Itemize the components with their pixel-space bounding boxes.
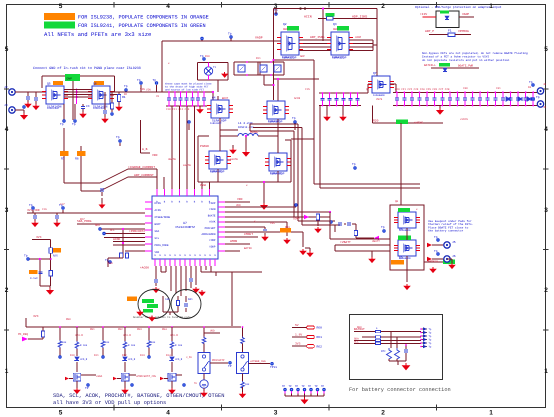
svg-text:4: 4: [5, 126, 9, 133]
svg-text:VBATT: VBATT: [372, 240, 380, 243]
svg-text:R53: R53: [137, 328, 142, 331]
svg-text:C4: C4: [86, 105, 90, 108]
svg-text:SDA, SCL, ACOK, PROCHOT#, BATG: SDA, SCL, ACOK, PROCHOT#, BATGONE, OTGEN…: [53, 393, 224, 399]
svg-text:R1: R1: [122, 96, 126, 99]
svg-text:SDA: SDA: [155, 230, 160, 233]
svg-text:BATID: BATID: [244, 247, 252, 250]
svg-text:SiSA08DN: SiSA08DN: [399, 229, 411, 232]
svg-text:Tp: Tp: [200, 55, 204, 58]
svg-text:TP: TP: [282, 385, 286, 388]
svg-text:TP: TP: [228, 365, 232, 368]
svg-text:R51: R51: [90, 328, 95, 331]
svg-text:PROCHOT: PROCHOT: [205, 227, 216, 230]
svg-text:VDD: VDD: [210, 330, 215, 333]
svg-text:R25: R25: [53, 255, 58, 258]
svg-text:Tp: Tp: [434, 236, 438, 239]
svg-text:TP: TP: [295, 385, 299, 388]
svg-text:+19V: +19V: [420, 13, 427, 16]
svg-text:J_PH: J_PH: [186, 356, 192, 359]
svg-text:D11: D11: [94, 354, 99, 357]
svg-text:Tp: Tp: [72, 123, 76, 126]
svg-text:AMON: AMON: [230, 240, 237, 243]
svg-text:4: 4: [166, 410, 170, 417]
svg-text:+ACOK: +ACOK: [140, 267, 149, 270]
svg-text:R20: R20: [373, 120, 379, 123]
svg-text:the battery connector: the battery connector: [428, 229, 464, 233]
svg-text:AMON/BMON: AMON/BMON: [201, 233, 215, 236]
svg-text:PA5013.222: PA5013.222: [238, 126, 254, 129]
svg-text:SiSA14DN: SiSA14DN: [93, 107, 105, 110]
svg-text:Tp: Tp: [137, 79, 141, 82]
svg-text:C17: C17: [60, 203, 65, 206]
svg-text:ADP_P: ADP_P: [425, 30, 434, 33]
svg-text:3V3-R: 3V3-R: [75, 334, 83, 337]
svg-text:TPxx: TPxx: [270, 366, 277, 369]
svg-text:CSON: CSON: [209, 208, 216, 211]
svg-text:TP: TP: [315, 385, 319, 388]
svg-text:SiSA08DN: SiSA08DN: [399, 257, 411, 260]
svg-text:C10 C11 C12 C13: C10 C11 C12 C13: [166, 108, 190, 111]
svg-text:Q3: Q3: [333, 23, 337, 26]
svg-text:ISL9238HRTZ: ISL9238HRTZ: [175, 226, 195, 229]
svg-text:LED_R: LED_R: [175, 358, 183, 361]
svg-text:Q6: Q6: [93, 83, 97, 86]
svg-text:D12: D12: [122, 354, 127, 357]
svg-text:10k: 10k: [151, 341, 156, 344]
svg-text:C15: C15: [305, 88, 310, 91]
svg-text:all have 3V3 or VDD pull up op: all have 3V3 or VDD pull up options: [53, 400, 166, 406]
svg-text:Tp: Tp: [434, 250, 438, 253]
svg-text:FOR ISL9238, POPULATE COMPONEN: FOR ISL9238, POPULATE COMPONENTS IN ORAN…: [78, 15, 209, 21]
svg-text:R60: R60: [317, 327, 323, 330]
svg-text:3: 3: [544, 207, 548, 214]
svg-text:Tp: Tp: [116, 136, 120, 139]
svg-text:+OTGEN_CHG: +OTGEN_CHG: [250, 360, 266, 363]
svg-text:J2: J2: [4, 86, 8, 89]
svg-text:Instead of a FET a 0ohm resist: Instead of a FET a 0ohm resistor to VSYS: [422, 54, 489, 58]
svg-text:U7: U7: [183, 221, 187, 225]
svg-text:Tp: Tp: [60, 123, 64, 126]
svg-text:C16: C16: [42, 208, 47, 211]
svg-text:BOOT: BOOT: [222, 97, 229, 100]
svg-text:T1: T1: [213, 66, 217, 69]
svg-text:R7: R7: [61, 158, 65, 161]
svg-text:Tp: Tp: [29, 204, 33, 207]
svg-text:+VSYS: +VSYS: [460, 118, 468, 121]
svg-text:VDD: VDD: [152, 154, 158, 157]
svg-text:Q8: Q8: [395, 200, 399, 203]
svg-text:VSYS: VSYS: [376, 98, 383, 101]
svg-text:Optional - ESD/Surge protectio: Optional - ESD/Surge protection on adapt…: [415, 5, 502, 9]
svg-text:SDA: SDA: [95, 224, 100, 227]
svg-text:5: 5: [544, 46, 548, 53]
svg-text:ADP_CURRENT: ADP_CURRENT: [134, 174, 154, 177]
svg-text:For battery connector connecti: For battery connector connection: [349, 387, 451, 393]
svg-text:Snubber Cboot options to tune: Snubber Cboot options to tune SW node: [133, 316, 191, 319]
svg-text:COMP: COMP: [209, 239, 216, 242]
svg-text:Tp: Tp: [381, 226, 385, 229]
svg-text:ACIN: ACIN: [155, 209, 162, 212]
svg-text:1: 1: [5, 368, 9, 375]
svg-text:Q5: Q5: [47, 83, 51, 86]
svg-text:R41: R41: [188, 298, 193, 301]
svg-text:SiRA10DP: SiRA10DP: [210, 122, 222, 125]
svg-text:SCL: SCL: [354, 340, 359, 343]
svg-text:do not populate resistors and: do not populate resistors and put in eit…: [422, 58, 510, 62]
svg-text:Tp: Tp: [352, 163, 356, 166]
svg-text:J3: J3: [4, 104, 8, 107]
svg-text:C40: C40: [165, 298, 170, 301]
svg-text:SiRA12DP: SiRA12DP: [282, 56, 294, 59]
svg-text:VDD: VDD: [236, 204, 241, 207]
svg-text:Tp: Tp: [292, 117, 296, 120]
svg-text:R62: R62: [317, 345, 323, 348]
svg-text:J6: J6: [452, 255, 456, 258]
svg-text:VIN: VIN: [140, 88, 145, 91]
svg-text:J5: J5: [452, 241, 456, 244]
svg-text:R54: R54: [162, 328, 167, 331]
svg-text:VPPROG: VPPROG: [458, 30, 469, 33]
svg-text:R2: R2: [124, 93, 128, 96]
svg-text:4: 4: [544, 126, 548, 133]
svg-text:Q2: Q2: [283, 23, 287, 26]
svg-text:3V3: 3V3: [33, 315, 39, 318]
svg-text:UGATE: UGATE: [168, 158, 176, 161]
svg-text:A_B: A_B: [142, 148, 148, 151]
svg-text:VADP: VADP: [462, 13, 469, 16]
svg-text:ADP_ISNS: ADP_ISNS: [310, 36, 325, 39]
svg-text:3V3: 3V3: [36, 236, 42, 239]
svg-text:5: 5: [59, 410, 63, 417]
svg-text:R60: R60: [357, 326, 362, 329]
svg-text:VDD: VDD: [237, 198, 243, 201]
svg-text:VADP: VADP: [355, 36, 362, 39]
svg-text:DNP: DNP: [283, 28, 288, 31]
svg-text:2: 2: [381, 410, 385, 417]
svg-text:10k: 10k: [245, 383, 250, 386]
svg-text:R33: R33: [285, 226, 290, 229]
svg-text:3V3-R: 3V3-R: [170, 334, 178, 337]
svg-text:BATKILL: BATKILL: [424, 64, 436, 67]
svg-text:PHASE: PHASE: [200, 145, 209, 148]
svg-text:3V3: 3V3: [295, 343, 301, 346]
svg-text:BATKILL: BATKILL: [428, 260, 439, 263]
svg-text:LGATE: LGATE: [183, 164, 191, 167]
svg-text:SiRA18DP: SiRA18DP: [210, 170, 222, 173]
svg-text:+PROCHOT#: +PROCHOT#: [129, 230, 145, 233]
svg-text:R10: R10: [205, 55, 210, 58]
svg-text:3: 3: [5, 207, 9, 214]
svg-text:J9: J9: [543, 106, 547, 109]
svg-text:TP: TP: [321, 385, 325, 388]
svg-text:C20 C21 C22 C23 C24 C25 C26 C2: C20 C21 C22 C23 C24 C25 C26 C27 C28: [395, 88, 450, 91]
svg-text:TP: TP: [302, 385, 306, 388]
svg-text:Tp: Tp: [228, 33, 232, 36]
svg-text:PROCHOT#: PROCHOT#: [212, 359, 225, 362]
svg-text:D14: D14: [166, 354, 171, 357]
svg-text:Q4: Q4: [212, 97, 216, 100]
svg-text:Tp: Tp: [529, 81, 533, 84]
svg-text:+CHARGE_CURRENT: +CHARGE_CURRENT: [128, 166, 155, 169]
svg-text:SiRA10DP: SiRA10DP: [268, 120, 280, 123]
svg-text:10k: 10k: [62, 341, 67, 344]
svg-text:BGATE_PWR: BGATE_PWR: [458, 65, 473, 68]
svg-text:0.1uF: 0.1uF: [30, 277, 38, 280]
svg-text:Tp: Tp: [24, 255, 28, 258]
svg-text:Non-bypass FETs are not popula: Non-bypass FETs are not populated, do no…: [422, 51, 528, 55]
svg-text:F1: F1: [448, 30, 452, 33]
svg-text:C30: C30: [463, 87, 468, 90]
svg-text:R50: R50: [66, 318, 71, 321]
svg-text:+SDA: +SDA: [96, 375, 103, 378]
svg-text:PHASE: PHASE: [250, 131, 258, 134]
svg-text:4: 4: [166, 3, 170, 10]
svg-text:D10: D10: [70, 354, 75, 357]
svg-text:2: 2: [5, 287, 9, 294]
svg-text:2: 2: [381, 3, 385, 10]
svg-text:LED_R: LED_R: [128, 358, 136, 361]
svg-text:BGATE: BGATE: [208, 214, 216, 217]
svg-text:COMP: COMP: [293, 218, 300, 221]
svg-text:SiRA18DP: SiRA18DP: [270, 172, 282, 175]
svg-text:2: 2: [544, 287, 548, 294]
svg-text:R27: R27: [80, 218, 85, 221]
svg-text:All NFETs and PFETs are 3x3 si: All NFETs and PFETs are 3x3 size: [44, 31, 151, 38]
svg-text:1.8V: 1.8V: [295, 334, 302, 337]
svg-text:Q7: Q7: [366, 88, 370, 91]
svg-text:DNP: DNP: [67, 77, 73, 80]
svg-text:ADP: ADP: [300, 55, 305, 58]
svg-text:OTGEN/MODE: OTGEN/MODE: [155, 216, 171, 219]
svg-text:CMOUT: CMOUT: [244, 233, 253, 236]
svg-text:Tp: Tp: [153, 79, 157, 82]
svg-text:3V3-R: 3V3-R: [123, 334, 131, 337]
svg-text:PROG_MODE: PROG_MODE: [155, 244, 169, 247]
svg-text:D13: D13: [140, 354, 145, 357]
svg-text:+VBATT: +VBATT: [340, 241, 351, 244]
svg-text:C35: C35: [270, 222, 275, 225]
svg-text:5: 5: [5, 46, 9, 53]
svg-text:SCL: SCL: [155, 237, 160, 240]
svg-text:+PROCHOT#_CML: +PROCHOT#_CML: [136, 375, 157, 378]
svg-text:VDDP: VDDP: [209, 245, 216, 248]
svg-text:Q7: Q7: [373, 72, 377, 75]
svg-text:TP: TP: [308, 385, 312, 388]
svg-text:PGND: PGND: [200, 184, 207, 187]
svg-text:C9: C9: [156, 95, 160, 98]
svg-text:+VSYS: +VSYS: [414, 122, 423, 125]
svg-text:and source of low side FET: and source of low side FET: [165, 88, 205, 91]
svg-text:CSOP: CSOP: [209, 202, 216, 205]
svg-text:3: 3: [274, 410, 278, 417]
svg-text:10k: 10k: [105, 341, 110, 344]
svg-text:R52: R52: [118, 328, 123, 331]
svg-text:ACOK: ACOK: [113, 238, 120, 241]
svg-text:1: 1: [544, 368, 548, 375]
svg-text:VADP: VADP: [255, 36, 263, 40]
svg-text:DNP: DNP: [333, 28, 338, 31]
svg-text:SiRA12DP: SiRA12DP: [332, 56, 344, 59]
svg-text:LGATE: LGATE: [230, 158, 238, 161]
svg-text:TP: TP: [289, 385, 293, 388]
svg-text:PD_REQ: PD_REQ: [18, 333, 28, 336]
svg-text:Connect GND of In-rush ckt to: Connect GND of In-rush ckt to PGND plane…: [33, 66, 141, 71]
svg-text:Tp: Tp: [124, 85, 128, 88]
svg-text:R 10k: R 10k: [80, 344, 88, 347]
svg-text:R61: R61: [317, 336, 323, 339]
svg-text:BOOT: BOOT: [155, 223, 162, 226]
svg-text:LED_R: LED_R: [80, 358, 88, 361]
svg-text:C31: C31: [496, 87, 501, 90]
svg-text:FOR ISL9241, POPULATE COMPONEN: FOR ISL9241, POPULATE COMPONENTS IN GREE…: [78, 23, 206, 29]
svg-text:ADP_ISNS: ADP_ISNS: [352, 14, 367, 18]
svg-text:VIN: VIN: [146, 89, 151, 92]
svg-text:J8: J8: [543, 83, 547, 86]
svg-text:5V: 5V: [295, 324, 299, 327]
svg-text:NTC: NTC: [381, 350, 386, 353]
svg-text:SiSA14DN: SiSA14DN: [47, 107, 59, 110]
svg-text:R 10k: R 10k: [128, 344, 136, 347]
svg-text:TP: TP: [85, 387, 89, 390]
svg-text:SiSA08DN: SiSA08DN: [373, 94, 385, 97]
svg-text:1: 1: [489, 410, 493, 417]
svg-text:D3: D3: [528, 86, 532, 89]
svg-text:R 10k: R 10k: [175, 344, 183, 347]
svg-text:ACIN: ACIN: [294, 97, 301, 100]
svg-text:Tp: Tp: [536, 96, 540, 99]
svg-text:ACOK: ACOK: [209, 221, 216, 224]
svg-text:R8: R8: [75, 158, 79, 161]
svg-text:ACIN: ACIN: [304, 14, 312, 18]
svg-text:5: 5: [59, 3, 63, 10]
svg-text:R11: R11: [256, 57, 261, 60]
svg-text:SCL: SCL: [110, 229, 115, 232]
svg-text:R30: R30: [108, 262, 113, 265]
